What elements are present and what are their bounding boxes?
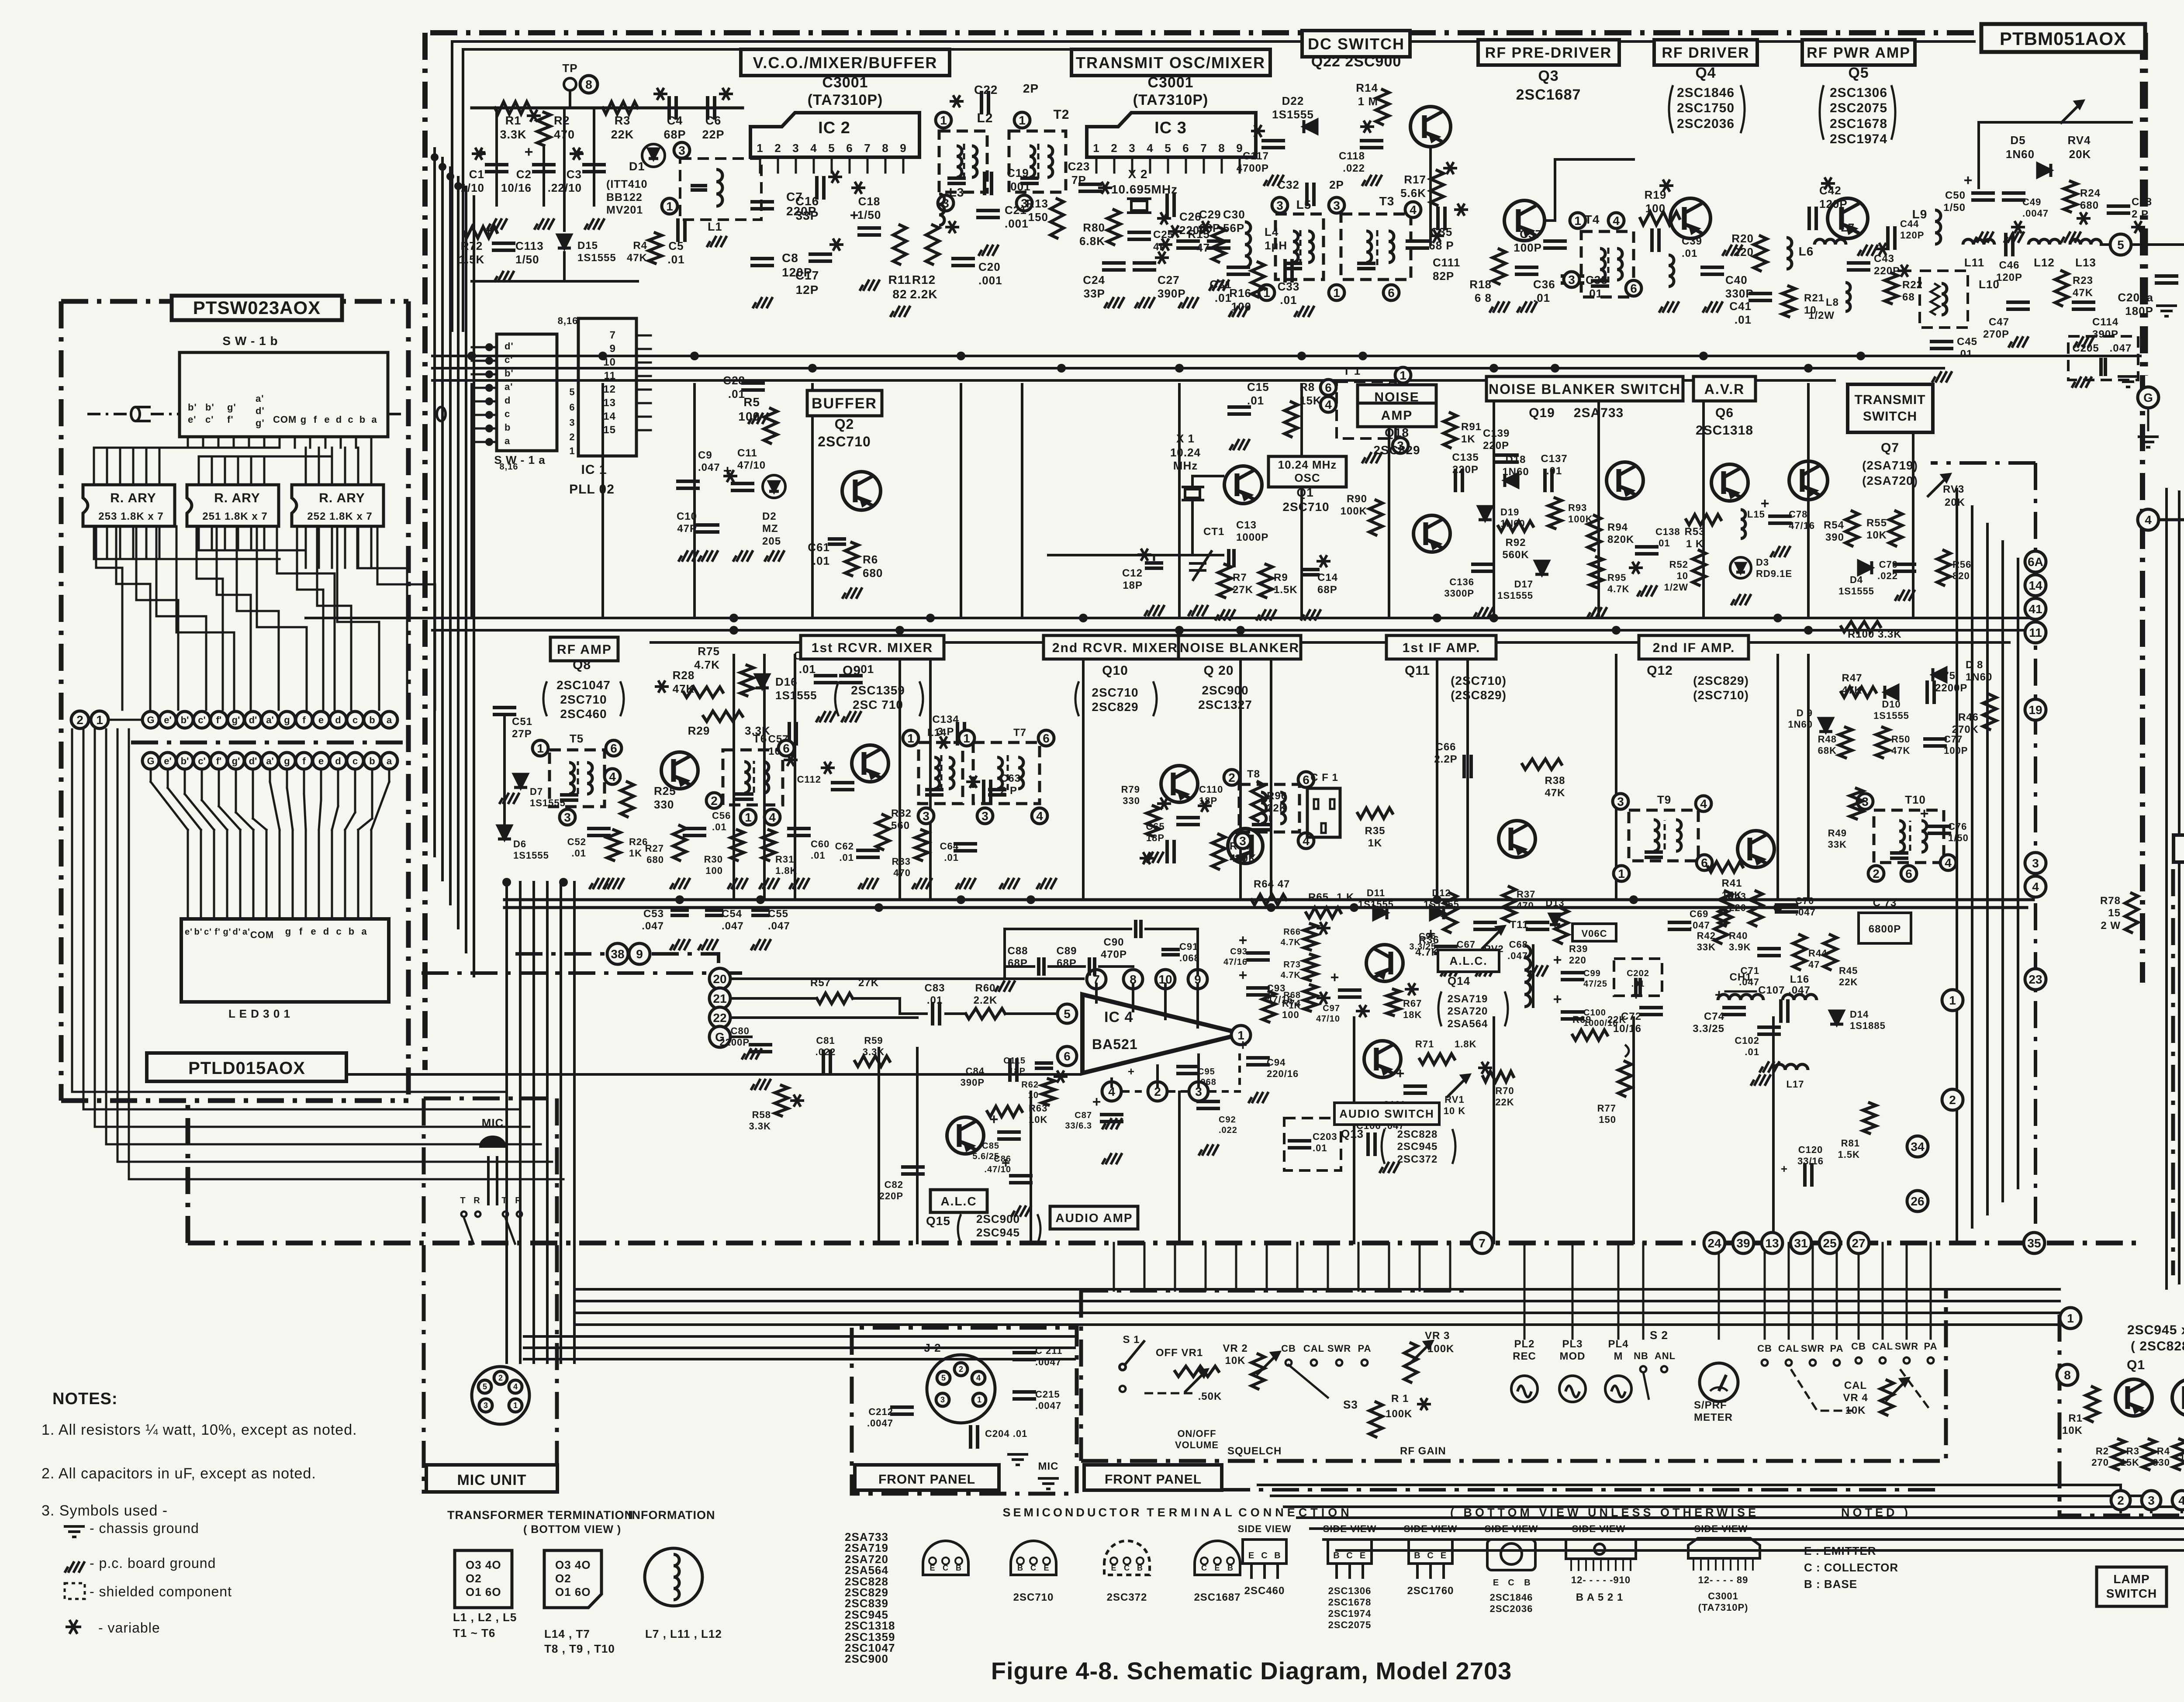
svg-text:R17: R17 (1404, 173, 1426, 186)
wire (693, 384, 696, 618)
inductor L12 (2028, 239, 2060, 245)
svg-text:D7: D7 (530, 786, 543, 797)
tuning capacitor (1892, 851, 1907, 855)
PTBM board left border (422, 33, 428, 1070)
svg-text:23: 23 (2028, 973, 2042, 986)
wire (1814, 208, 1818, 228)
svg-text:2.2K: 2.2K (974, 994, 998, 1006)
capacitor C17 (810, 252, 830, 256)
wire (732, 1036, 751, 1038)
svg-text:C: C (1508, 1578, 1514, 1588)
resistor R43 (1749, 891, 1762, 926)
resistor R81 (1863, 1103, 1876, 1133)
svg-text:L9: L9 (1912, 207, 1928, 221)
capacitor C45 (1932, 340, 1952, 343)
wire (1725, 991, 1756, 993)
pin lead (831, 157, 833, 173)
pc board ground (1489, 301, 1510, 313)
svg-text:R52: R52 (1669, 559, 1688, 570)
svg-text:B: B (1524, 1578, 1531, 1588)
IC1 pin (636, 416, 651, 418)
pc board ground (487, 218, 507, 230)
wire (1014, 1358, 1034, 1361)
svg-text:330: 330 (2153, 1457, 2170, 1468)
routing wire (156, 526, 206, 710)
capacitor C111 (1407, 239, 1427, 243)
svg-text:(2SC710): (2SC710) (1693, 688, 1749, 702)
terminal 7 (1472, 1232, 1493, 1253)
svg-text:T: T (501, 1196, 507, 1205)
svg-text:Q10: Q10 (1102, 663, 1128, 678)
pc board ground (995, 980, 1015, 992)
svg-text:D11: D11 (1367, 887, 1385, 898)
svg-text:C94: C94 (1267, 1057, 1286, 1068)
L1 tuning cap (692, 184, 705, 187)
wire (1174, 1243, 1176, 1291)
svg-text:2SC1687: 2SC1687 (1516, 86, 1581, 103)
transformer T10 (1874, 810, 1944, 863)
terminal 35 (2024, 1232, 2045, 1253)
capacitor C75 (1925, 682, 1929, 702)
junction dot (1489, 614, 1498, 622)
junction (485, 397, 493, 405)
connector pin c' row1 (194, 711, 210, 728)
wire (503, 717, 506, 825)
diode D4 (1859, 561, 1872, 574)
pin lead (867, 157, 869, 173)
svg-text:RV3: RV3 (1943, 483, 1964, 495)
pc board ground (753, 297, 773, 308)
inductor L6 (1787, 238, 1792, 269)
svg-text:47/10: 47/10 (1316, 1014, 1340, 1024)
svg-text:L14 , T7: L14 , T7 (544, 1627, 590, 1640)
array wire (370, 526, 373, 568)
svg-text:3300P: 3300P (1444, 588, 1474, 599)
wire (1113, 1243, 1115, 1291)
svg-text:C139: C139 (1483, 428, 1510, 439)
J2 pin 3 (936, 1393, 949, 1406)
pc board ground (1517, 301, 1537, 313)
svg-text:e: e (324, 414, 330, 425)
wire (1030, 1092, 1032, 1243)
transistor EPO Q1 (2115, 1379, 2152, 1416)
wire (1469, 756, 1473, 777)
wire (651, 641, 2009, 644)
svg-text:2SC710: 2SC710 (560, 693, 607, 706)
resistor R79 (1147, 806, 1160, 836)
svg-text:4: 4 (2032, 880, 2039, 894)
wire (472, 107, 743, 110)
capacitor C54 (707, 908, 722, 912)
capacitor C24 (1104, 261, 1124, 265)
LED wire (219, 806, 240, 830)
svg-text:C60: C60 (811, 839, 829, 849)
LED wire (287, 788, 293, 830)
capacitor C211 (1014, 1351, 1034, 1354)
svg-text:BUFFER: BUFFER (812, 395, 877, 412)
svg-text:6: 6 (610, 742, 617, 755)
wire (1134, 268, 1154, 272)
svg-text:g': g' (256, 418, 265, 428)
junction dot (1079, 614, 1088, 622)
svg-text:( 2SC828 ): ( 2SC828 ) (2131, 1339, 2184, 1353)
svg-text:390P: 390P (1158, 287, 1186, 300)
svg-text:1N60: 1N60 (1502, 466, 1529, 478)
left bus wire (117, 729, 119, 1162)
resistor R15 (1212, 227, 1225, 262)
connector pin c row2 (347, 753, 363, 769)
svg-text:d': d' (256, 405, 265, 416)
junction dot (1350, 903, 1358, 912)
svg-text:2SC1678: 2SC1678 (1830, 117, 1887, 131)
svg-text:R72: R72 (461, 239, 483, 252)
svg-text:R18: R18 (1469, 278, 1492, 291)
adjust arrow (1185, 1370, 1207, 1392)
capacitor C22 (980, 93, 983, 113)
wire (898, 998, 901, 1014)
svg-text:330: 330 (1123, 795, 1140, 806)
svg-text:C5: C5 (668, 239, 684, 252)
wire (1615, 655, 1617, 900)
svg-text:c': c' (205, 414, 214, 425)
wire (733, 655, 735, 900)
terminal 31 (1790, 1232, 1811, 1253)
svg-text:C117: C117 (1243, 150, 1269, 162)
svg-text:MOD: MOD (1560, 1350, 1586, 1362)
variable mark (966, 776, 980, 788)
svg-text:C90: C90 (1103, 936, 1124, 948)
svg-text:L1: L1 (708, 220, 722, 233)
connector pin g' row2 (228, 753, 244, 769)
svg-text:47K: 47K (1545, 787, 1565, 799)
wire (1248, 993, 1268, 997)
LED wire (150, 770, 152, 782)
connector pin b row2 (364, 753, 380, 769)
paren (1075, 681, 1157, 716)
wire (678, 487, 698, 490)
capacitor C69 (1669, 921, 1690, 924)
diode (1736, 563, 1745, 572)
svg-text:C: C (943, 1564, 949, 1572)
capacitor C139 (1497, 453, 1517, 457)
capacitor C81 (822, 1051, 825, 1071)
resistor R22 (1885, 273, 1898, 304)
terminal 26 (1907, 1191, 1928, 1212)
pin dash3 (1209, 1048, 1240, 1091)
svg-text:b': b' (188, 402, 197, 413)
svg-text:b': b' (205, 402, 214, 413)
svg-text:C23: C23 (1068, 160, 1090, 173)
svg-text:C43: C43 (1874, 253, 1894, 265)
header NOISE AMP2 (1358, 403, 1436, 427)
svg-text:9: 9 (610, 343, 616, 355)
svg-text:2SC1846: 2SC1846 (1490, 1592, 1533, 1603)
junction dot (1804, 364, 1813, 373)
svg-text:R58: R58 (752, 1109, 771, 1120)
wire (1669, 928, 1690, 931)
capacitor C64 (955, 842, 975, 846)
terminal 4 (764, 809, 780, 825)
svg-text:a: a (361, 926, 367, 937)
terminal 6 (778, 740, 794, 756)
svg-text:14: 14 (2028, 579, 2042, 592)
junction dot (1175, 364, 1184, 373)
svg-text:10/16: 10/16 (501, 181, 532, 194)
resistor R3epo (2143, 1439, 2156, 1470)
svg-text:CAL: CAL (1872, 1341, 1893, 1352)
LED wire (168, 788, 201, 830)
array wire (318, 448, 320, 485)
svg-text:25: 25 (1823, 1236, 1836, 1250)
PTSW board left border (59, 301, 64, 1101)
LED wire (303, 770, 305, 794)
svg-text:CAL: CAL (1303, 1343, 1324, 1354)
svg-text:4: 4 (609, 770, 616, 784)
meter S/PRF (1700, 1363, 1738, 1402)
svg-text:RF AMP: RF AMP (557, 642, 612, 657)
array wire (305, 448, 307, 485)
svg-text:a': a' (505, 381, 513, 392)
SW contact (1834, 1360, 1840, 1366)
resistor R37 (1503, 887, 1516, 922)
svg-text:C15: C15 (1247, 380, 1269, 394)
wire (1597, 384, 1600, 618)
svg-text:g: g (284, 756, 290, 766)
wire (546, 882, 549, 1363)
svg-text:.01: .01 (813, 554, 830, 567)
wire (1929, 832, 1949, 835)
svg-text:D13: D13 (1545, 898, 1564, 908)
routing wire (317, 526, 351, 710)
inductor (716, 169, 722, 206)
svg-text:(2SA719): (2SA719) (1862, 459, 1918, 472)
svg-text:f': f' (216, 756, 222, 766)
svg-text:68P: 68P (1317, 584, 1337, 596)
wire (1011, 1181, 1031, 1184)
LED wire (345, 812, 355, 830)
array wire (145, 526, 148, 559)
wire (487, 170, 507, 173)
capacitor C5 (676, 220, 680, 240)
capacitor C57 (788, 724, 791, 744)
wire (929, 655, 932, 900)
svg-text:O2: O2 (466, 1572, 482, 1585)
svg-text:2SC372: 2SC372 (1397, 1153, 1438, 1165)
svg-text:5: 5 (941, 1374, 946, 1382)
svg-text:Q4: Q4 (1695, 65, 1716, 81)
inductor (1389, 231, 1394, 262)
svg-text:C1: C1 (469, 168, 484, 181)
variable mark (950, 95, 964, 107)
svg-text:SIDE VIEW: SIDE VIEW (1323, 1523, 1377, 1534)
svg-text:R81: R81 (1841, 1138, 1860, 1149)
terminal 1 (740, 809, 756, 825)
svg-text:1N60: 1N60 (1788, 719, 1813, 730)
resistor R5 (764, 408, 777, 443)
svg-text:1: 1 (537, 742, 544, 755)
wire (505, 898, 2033, 901)
svg-text:Q3: Q3 (1538, 68, 1559, 84)
LED wire (239, 830, 242, 919)
resistor R96 (1251, 782, 1265, 821)
svg-text:6: 6 (1064, 1050, 1071, 1063)
adjust arrow (1447, 1075, 1469, 1098)
svg-text:R50: R50 (1891, 734, 1910, 745)
svg-text:11: 11 (2029, 626, 2042, 639)
core arrow (1664, 820, 1666, 849)
svg-text:f': f' (216, 715, 222, 725)
transistor Q8 (661, 752, 698, 789)
tuning capacitor (1254, 823, 1268, 826)
capacitor C2 (534, 163, 554, 166)
svg-text:A.L.C: A.L.C (940, 1195, 977, 1208)
svg-text:D15: D15 (577, 240, 598, 252)
svg-text:C9: C9 (698, 449, 712, 461)
inductor (1600, 249, 1605, 280)
zener D2 (763, 475, 785, 498)
svg-text:.01: .01 (944, 852, 959, 863)
wire (1324, 1538, 2184, 1541)
svg-text:R29: R29 (688, 724, 710, 737)
LED wire (201, 770, 203, 800)
terminal 1 (1395, 367, 1411, 383)
terminal G (2138, 387, 2159, 408)
terminal 1 (1259, 285, 1275, 300)
S1-VR1 link (1144, 1392, 1197, 1395)
transistor Q4 (1670, 198, 1711, 238)
svg-text:C20: C20 (978, 260, 1001, 273)
coax2 (437, 407, 446, 421)
SW-1b pin wire (355, 437, 357, 448)
PTSW board right border (406, 301, 411, 725)
junction dot (1026, 895, 1035, 904)
transformer T1 (1337, 382, 1396, 438)
svg-text:d: d (335, 715, 341, 725)
svg-text:68: 68 (1902, 291, 1915, 303)
resistor R20 (1754, 236, 1767, 271)
terminal 4 (1608, 213, 1624, 228)
wire (859, 233, 879, 237)
svg-text:E : EMITTER: E : EMITTER (1804, 1544, 1876, 1557)
svg-text:C114: C114 (2092, 316, 2118, 328)
resistor R40 (1714, 908, 1728, 943)
svg-text:R38: R38 (1545, 775, 1565, 787)
resistor R24 (2064, 181, 2077, 212)
variable mark (1454, 204, 1468, 216)
variable mark (1317, 992, 1330, 1004)
svg-text:e: e (318, 756, 324, 766)
capacitor C51 (494, 706, 515, 709)
crystal X1 (1182, 487, 1204, 500)
terminal 19 (2025, 699, 2046, 720)
svg-text:2: 2 (569, 432, 575, 442)
potentiometer VR4 (1880, 1380, 1894, 1415)
wire (601, 384, 604, 618)
svg-text:+: + (990, 1111, 999, 1128)
svg-text:(2SC829): (2SC829) (1693, 674, 1749, 687)
LED wire (358, 818, 372, 830)
wire (1493, 384, 1495, 618)
svg-text:c': c' (198, 756, 205, 766)
pin lead (813, 157, 815, 173)
svg-text:IC 4: IC 4 (1104, 1009, 1133, 1025)
variable mark (1157, 797, 1171, 810)
svg-text:1: 1 (2067, 1312, 2074, 1325)
header NOISE BLANKER (1178, 635, 1301, 659)
svg-text:4: 4 (810, 142, 817, 155)
core arrow (1299, 227, 1302, 265)
wire (1005, 1012, 1057, 1015)
terminal 4 (2138, 509, 2159, 530)
label V06C (1572, 924, 1616, 941)
core arrow (1007, 755, 1009, 790)
capacitor C21 (978, 209, 998, 212)
svg-text:2SC460: 2SC460 (560, 707, 607, 721)
transistor Q6 (1711, 464, 1748, 501)
wire (505, 882, 508, 1363)
terminal 1 (936, 112, 951, 128)
svg-text:1: 1 (666, 200, 673, 213)
mic pin 2 (494, 1371, 507, 1384)
wire (853, 997, 900, 1000)
svg-text:C79: C79 (1879, 559, 1898, 570)
svg-text:Figure 4-8. Schematic Diagram,: Figure 4-8. Schematic Diagram, Model 270… (991, 1657, 1512, 1685)
array wire (93, 526, 95, 559)
SW-1b pin wire (187, 437, 189, 448)
svg-text:T 1: T 1 (1343, 364, 1361, 377)
svg-text:SIDE VIEW: SIDE VIEW (1485, 1523, 1538, 1534)
wire (2156, 281, 2177, 285)
svg-text:RF DRIVER: RF DRIVER (1662, 45, 1749, 61)
svg-text:560: 560 (891, 820, 910, 832)
wire (584, 170, 604, 173)
adjust arrow (1886, 1378, 1908, 1401)
varactor diode D1 (649, 149, 658, 159)
terminal 3 (918, 808, 934, 824)
svg-text:5: 5 (828, 142, 835, 155)
wire (1407, 246, 1427, 250)
svg-text:b: b (369, 715, 375, 725)
header 10.24 MHz OSC (1268, 456, 1346, 487)
svg-text:.022: .022 (1219, 1125, 1237, 1135)
routing wire (237, 526, 279, 710)
terminal 27 (1848, 1232, 1869, 1253)
svg-text:10: 10 (1677, 570, 1688, 581)
wire (2147, 408, 2149, 430)
wire (110, 719, 142, 721)
svg-text:R13: R13 (1026, 197, 1048, 210)
resistor R27 (673, 825, 686, 860)
svg-text:CAL: CAL (1844, 1380, 1867, 1391)
svg-text:6: 6 (1388, 286, 1395, 300)
pc board ground (789, 878, 809, 889)
junction dot (1175, 626, 1184, 635)
capacitor C29 (1178, 239, 1198, 243)
svg-text:C84: C84 (966, 1066, 985, 1077)
terminal 6 (1626, 280, 1641, 296)
wire (1637, 552, 1657, 556)
svg-text:S3: S3 (1343, 1398, 1358, 1411)
svg-text:1K: 1K (1368, 837, 1382, 849)
svg-text:1: 1 (963, 732, 970, 745)
adjust arrow (1482, 926, 1504, 949)
pc board ground (1178, 297, 1199, 308)
svg-text:c: c (352, 715, 358, 725)
terminal 3 (560, 809, 575, 825)
wire (1163, 953, 1178, 956)
inductor (744, 762, 750, 793)
svg-text:18P: 18P (1123, 580, 1143, 591)
